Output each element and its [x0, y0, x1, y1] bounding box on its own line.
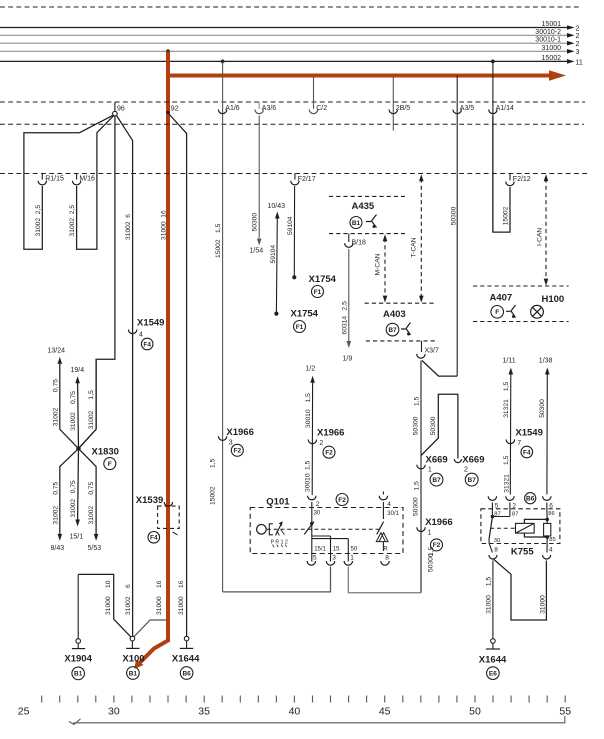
svg-text:0,75: 0,75 — [70, 391, 77, 404]
svg-text:B/18: B/18 — [352, 240, 367, 247]
svg-text:2: 2 — [319, 440, 323, 447]
wire 31002 6 from node 96 — [117, 116, 133, 637]
Q101 main contact — [304, 522, 314, 535]
svg-text:E6: E6 — [489, 670, 497, 677]
svg-text:A1/14: A1/14 — [496, 105, 514, 112]
svg-text:2: 2 — [576, 33, 580, 40]
svg-text:31002 2,5: 31002 2,5 — [35, 205, 42, 237]
svg-text:A3/5: A3/5 — [460, 105, 475, 112]
dashed harness boundary row 1 — [0, 101, 585, 103]
svg-text:30: 30 — [494, 538, 500, 544]
node junction 15002 x222 — [221, 60, 225, 64]
svg-text:X1539: X1539 — [136, 495, 163, 506]
svg-text:1: 1 — [428, 467, 432, 474]
svg-text:31000: 31000 — [542, 45, 562, 52]
connector A1/6 — [222, 61, 224, 592]
svg-text:F4: F4 — [523, 449, 531, 456]
svg-text:60314: 60314 — [341, 316, 348, 335]
svg-text:50: 50 — [469, 706, 481, 718]
svg-text:4: 4 — [139, 332, 143, 339]
svg-text:B1: B1 — [74, 671, 83, 678]
svg-text:2: 2 — [464, 467, 468, 474]
svg-text:2: 2 — [576, 41, 580, 48]
K755 resistor + pin6 feed — [546, 503, 548, 524]
svg-text:0,75: 0,75 — [88, 482, 95, 495]
connector X3/7 — [421, 341, 423, 352]
wire bus 30010-2 — [0, 34, 567, 36]
svg-text:F4: F4 — [150, 535, 158, 542]
svg-text:50300: 50300 — [413, 416, 420, 435]
svg-text:4: 4 — [387, 501, 391, 508]
svg-text:8: 8 — [494, 547, 498, 554]
svg-text:1,5: 1,5 — [413, 396, 420, 406]
connector C/2 — [313, 76, 315, 109]
connector X1966 pin2 F2 — [308, 440, 316, 444]
svg-text:87: 87 — [512, 511, 518, 517]
svg-text:40: 40 — [289, 706, 301, 718]
svg-text:1/38: 1/38 — [539, 358, 553, 365]
svg-text:A403: A403 — [383, 309, 406, 320]
connector F2/17 wire 59104 — [294, 174, 296, 180]
svg-text:B1: B1 — [352, 220, 361, 227]
ground point X1904 B1 — [76, 639, 81, 644]
ground point X1644 B6 — [184, 636, 189, 641]
svg-text:30010: 30010 — [305, 473, 312, 492]
svg-text:2: 2 — [316, 501, 320, 508]
svg-text:B7: B7 — [432, 477, 441, 484]
svg-text:30: 30 — [314, 510, 321, 516]
svg-text:31000: 31000 — [178, 596, 185, 615]
K755 contact 87-30 — [489, 517, 492, 540]
svg-text:31002: 31002 — [70, 412, 77, 431]
svg-text:1,5: 1,5 — [88, 390, 95, 400]
svg-text:19/4: 19/4 — [71, 367, 85, 374]
wire 31000 16 companion from node 92 — [169, 114, 187, 636]
svg-text:X1904: X1904 — [64, 654, 92, 665]
svg-text:X1754: X1754 — [309, 274, 337, 285]
svg-text:B7: B7 — [468, 477, 477, 484]
connector B/18 wire 60314 2,5 to 1/9 — [348, 234, 350, 242]
svg-text:31321: 31321 — [503, 399, 510, 418]
svg-text:25: 25 — [18, 706, 30, 718]
svg-text:1,5: 1,5 — [305, 460, 312, 470]
svg-text:Q101: Q101 — [266, 496, 290, 507]
T-CAN dashed link — [420, 179, 422, 299]
svg-text:50300: 50300 — [430, 416, 437, 435]
svg-text:F1: F1 — [314, 289, 322, 296]
svg-text:31002 6: 31002 6 — [125, 214, 132, 240]
Q101 pin 2 (30) — [308, 496, 316, 500]
node X1830 star point F — [76, 446, 80, 450]
svg-text:10: 10 — [105, 580, 112, 588]
wire 31002 0,75 to 5/53 — [79, 449, 97, 534]
svg-text:31000: 31000 — [540, 595, 547, 614]
svg-text:31000 16: 31000 16 — [161, 210, 168, 240]
circled F2 near Q101 — [336, 494, 348, 506]
ground point X100 B1 — [130, 636, 135, 641]
svg-text:1/11: 1/11 — [503, 358, 516, 365]
svg-text:X669: X669 — [426, 455, 448, 466]
connector symbol A407 — [506, 305, 516, 318]
svg-text:C/2: C/2 — [316, 105, 327, 112]
wire 31002 0,75 to 15/1 — [77, 449, 80, 520]
Q101 internal wiring to pins 15/1 15 50 — [311, 524, 313, 562]
wire 31000 1,5 ground from pin 8 — [492, 561, 494, 639]
svg-text:55: 55 — [559, 706, 571, 718]
control unit A403 B7 dashed box — [365, 302, 436, 304]
connector 2B/5 — [392, 76, 394, 131]
wire 50300 join from A3/5 — [422, 361, 457, 377]
svg-text:30010: 30010 — [305, 409, 312, 428]
svg-text:85: 85 — [549, 537, 555, 543]
svg-text:X1549: X1549 — [137, 318, 164, 329]
svg-text:92: 92 — [171, 106, 179, 113]
svg-text:F2/17: F2/17 — [298, 176, 316, 183]
wire 31000 10 X1904 loop — [78, 574, 131, 637]
connector X1966 pin1 F2 — [417, 527, 425, 531]
svg-text:30010-1: 30010-1 — [535, 37, 561, 44]
svg-text:31002: 31002 — [88, 410, 95, 429]
svg-text:31002: 31002 — [125, 596, 132, 615]
node X1754 F1 upper — [292, 275, 296, 279]
ruler scale — [42, 696, 566, 703]
connector X1549 pin7 F4 — [506, 440, 514, 444]
node 96 — [114, 102, 116, 111]
svg-text:A435: A435 — [352, 201, 375, 212]
svg-text:15/1: 15/1 — [70, 534, 84, 541]
svg-text:1,5: 1,5 — [485, 577, 492, 587]
svg-text:31002 2,5: 31002 2,5 — [69, 205, 76, 237]
svg-text:50300: 50300 — [539, 399, 546, 418]
svg-text:30/1: 30/1 — [387, 511, 399, 517]
svg-text:2: 2 — [576, 25, 580, 32]
K755 coil — [516, 523, 535, 533]
svg-text:16: 16 — [178, 580, 185, 588]
connector A1/14 — [492, 61, 494, 232]
Q101 ignition lock symbol — [257, 525, 267, 535]
connector A3/5 / wire 50300 — [456, 76, 458, 377]
svg-text:50300: 50300 — [427, 553, 434, 572]
wire 50300 pin 1 to X1966-1 — [348, 567, 421, 593]
svg-text:8/43: 8/43 — [51, 545, 65, 552]
svg-text:31002: 31002 — [52, 407, 59, 426]
wire 50300 1,5 down to Q101 pin1 — [420, 361, 422, 593]
connector F2/12 staple wire 15002 — [509, 174, 511, 181]
svg-text:F2: F2 — [325, 450, 333, 457]
svg-text:H100: H100 — [542, 294, 565, 305]
svg-text:X1549: X1549 — [515, 428, 542, 439]
svg-text:15001: 15001 — [542, 21, 562, 28]
svg-text:1,5: 1,5 — [413, 481, 420, 491]
svg-text:30: 30 — [108, 706, 120, 718]
svg-text:X1966: X1966 — [317, 428, 344, 439]
I-CAN dashed link — [545, 179, 547, 282]
svg-text:2B/5: 2B/5 — [396, 105, 411, 112]
svg-text:3: 3 — [229, 440, 233, 447]
svg-text:15/1: 15/1 — [314, 546, 326, 552]
connector X1966 pin3 F2 — [218, 436, 226, 440]
connector A3/6 — [258, 102, 260, 109]
svg-text:15: 15 — [333, 546, 340, 552]
svg-text:7: 7 — [517, 440, 521, 447]
svg-text:A1/6: A1/6 — [225, 105, 240, 112]
node X1754 F1 lower — [274, 312, 278, 316]
svg-text:31002: 31002 — [52, 506, 59, 525]
svg-text:I-CAN: I-CAN — [537, 228, 544, 246]
svg-text:5/53: 5/53 — [88, 545, 102, 552]
svg-text:59104: 59104 — [270, 245, 277, 264]
svg-text:1/9: 1/9 — [343, 356, 353, 363]
svg-text:31000: 31000 — [105, 596, 112, 615]
wire 31002 0,75 to 8/43 — [60, 449, 79, 534]
svg-text:T-CAN: T-CAN — [411, 237, 418, 257]
Q101 mechanical dashed link — [267, 528, 379, 530]
wire bus 15002 — [0, 60, 567, 62]
svg-text:B7: B7 — [388, 327, 397, 334]
svg-text:15002: 15002 — [503, 206, 510, 225]
Q101 pin 4 (30/1) start contact — [382, 491, 384, 494]
svg-text:0,75: 0,75 — [52, 482, 59, 495]
svg-text:86: 86 — [548, 511, 554, 517]
wire 50300 to 1/54 — [258, 116, 260, 239]
svg-text:1: 1 — [350, 554, 354, 561]
svg-text:1,5: 1,5 — [209, 458, 216, 468]
svg-text:1/2: 1/2 — [306, 366, 316, 373]
svg-text:F2: F2 — [234, 448, 242, 455]
svg-text:B6: B6 — [526, 496, 535, 503]
ground point X1644 E6 — [491, 639, 496, 644]
connector X1549 pin4 F4 — [128, 330, 136, 334]
svg-text:1,5: 1,5 — [503, 455, 510, 465]
wire 50300 branch to X669 pin2 — [421, 394, 458, 458]
node junction 15002 x493 — [491, 60, 495, 64]
svg-text:M/16: M/16 — [79, 176, 95, 183]
connector symbol A435 — [366, 215, 377, 228]
svg-text:3: 3 — [576, 49, 580, 56]
svg-text:1,5: 1,5 — [503, 382, 510, 392]
svg-text:X1966: X1966 — [226, 427, 253, 438]
svg-text:P R 1 2: P R 1 2 — [271, 539, 288, 545]
svg-text:3: 3 — [332, 554, 336, 561]
svg-text:1/54: 1/54 — [250, 248, 264, 255]
node junction 31000/red — [166, 49, 170, 53]
svg-text:6: 6 — [125, 584, 132, 588]
svg-text:15002: 15002 — [209, 486, 216, 505]
svg-text:16: 16 — [156, 580, 163, 588]
red arrow into X100 B1 — [134, 660, 143, 669]
svg-text:A3/6: A3/6 — [262, 105, 277, 112]
K755 87 bridge — [491, 503, 493, 517]
wire bus 15001 — [0, 27, 567, 29]
svg-text:F4: F4 — [143, 341, 151, 348]
connector M/16 with staple wire 31002 2,5 — [76, 174, 78, 180]
svg-text:A407: A407 — [490, 293, 513, 304]
svg-text:10/43: 10/43 — [268, 203, 286, 210]
svg-text:35: 35 — [198, 706, 210, 718]
svg-text:B6: B6 — [182, 670, 191, 677]
svg-text:X1754: X1754 — [291, 309, 319, 320]
svg-text:X3/7: X3/7 — [425, 348, 440, 355]
svg-text:B1: B1 — [129, 670, 138, 677]
central wire from 96 to X1830 — [79, 116, 115, 449]
svg-text:1,5: 1,5 — [305, 393, 312, 403]
svg-text:30010-2: 30010-2 — [535, 29, 561, 36]
svg-text:50: 50 — [351, 546, 358, 552]
connector X669 pin2 B7 — [454, 459, 461, 463]
wire top dashed boundary — [0, 6, 581, 8]
svg-text:1,5: 1,5 — [215, 223, 222, 233]
svg-text:15002: 15002 — [542, 55, 562, 62]
svg-text:31000: 31000 — [485, 595, 492, 614]
svg-text:50300: 50300 — [251, 213, 258, 232]
svg-text:2,5: 2,5 — [341, 301, 348, 311]
svg-text:8: 8 — [385, 554, 389, 561]
wire bus 30010-1 — [0, 42, 567, 44]
svg-text:1: 1 — [428, 530, 432, 537]
svg-text:F1: F1 — [296, 324, 304, 331]
svg-text:M-CAN: M-CAN — [375, 253, 382, 275]
M-CAN dashed link — [384, 238, 386, 299]
svg-text:13/24: 13/24 — [48, 348, 66, 355]
svg-text:R: R — [383, 546, 388, 552]
svg-text:31002: 31002 — [88, 506, 95, 525]
dashed harness boundary row 2 — [0, 123, 584, 125]
relay K755 dashed box — [481, 509, 560, 544]
svg-text:F: F — [495, 309, 499, 316]
wire 31002 0,75 to 13/24 — [60, 364, 79, 449]
svg-text:59104: 59104 — [287, 216, 294, 235]
svg-text:F2: F2 — [338, 497, 346, 504]
wire bus 31000 — [0, 50, 567, 52]
svg-text:50300: 50300 — [451, 206, 458, 225]
svg-text:15002: 15002 — [215, 239, 222, 258]
ruler baseline — [69, 716, 565, 725]
wire 31002 0,75 to 19/4 — [77, 383, 80, 449]
svg-text:0,75: 0,75 — [52, 379, 59, 392]
control unit A435 B1 dashed box — [329, 195, 405, 197]
module A407 F / lamp H100 dashed box — [473, 285, 569, 287]
svg-text:45: 45 — [379, 706, 391, 718]
wire red highlighted 31000 16 main path — [137, 51, 168, 665]
svg-text:31321: 31321 — [503, 474, 510, 493]
svg-text:31002: 31002 — [70, 499, 77, 518]
connector symbol A403 — [401, 323, 411, 336]
connector R1/15 with staple wire 31002 2,5 — [41, 174, 43, 180]
connector X669 pin1 B7 — [417, 465, 425, 469]
K755 pin 30 wire — [488, 540, 490, 544]
svg-text:X1644: X1644 — [172, 654, 200, 665]
svg-text:F2/12: F2/12 — [513, 176, 531, 183]
svg-text:5: 5 — [313, 554, 317, 561]
svg-text:0,75: 0,75 — [70, 480, 77, 493]
svg-text:K755: K755 — [511, 547, 534, 558]
svg-text:X1644: X1644 — [479, 655, 507, 666]
svg-text:31000: 31000 — [156, 596, 163, 615]
svg-text:X669: X669 — [462, 455, 484, 466]
svg-text:50300: 50300 — [413, 497, 420, 516]
K755 pin 85 wire down — [546, 537, 548, 553]
svg-text:X100: X100 — [122, 654, 144, 665]
svg-text:X1966: X1966 — [425, 517, 452, 528]
wire 31002 1,5 to node 96 — [79, 359, 97, 448]
svg-text:96: 96 — [117, 106, 125, 113]
K755 mechanical dashed — [490, 527, 515, 529]
wire 15002 to pin 3 — [223, 567, 331, 592]
wire red horizontal bus — [168, 74, 553, 78]
svg-text:X1830: X1830 — [92, 447, 119, 458]
svg-text:F: F — [108, 461, 112, 468]
wire tap from red to X100 — [134, 620, 167, 637]
svg-text:4: 4 — [549, 547, 553, 554]
svg-text:R1/15: R1/15 — [45, 176, 64, 183]
relay K755 top pins 5 2 6 — [488, 496, 496, 500]
svg-text:11: 11 — [576, 59, 583, 66]
dashed harness boundary row 3 — [0, 173, 590, 175]
wire 31000 loop pin4 — [494, 560, 547, 621]
